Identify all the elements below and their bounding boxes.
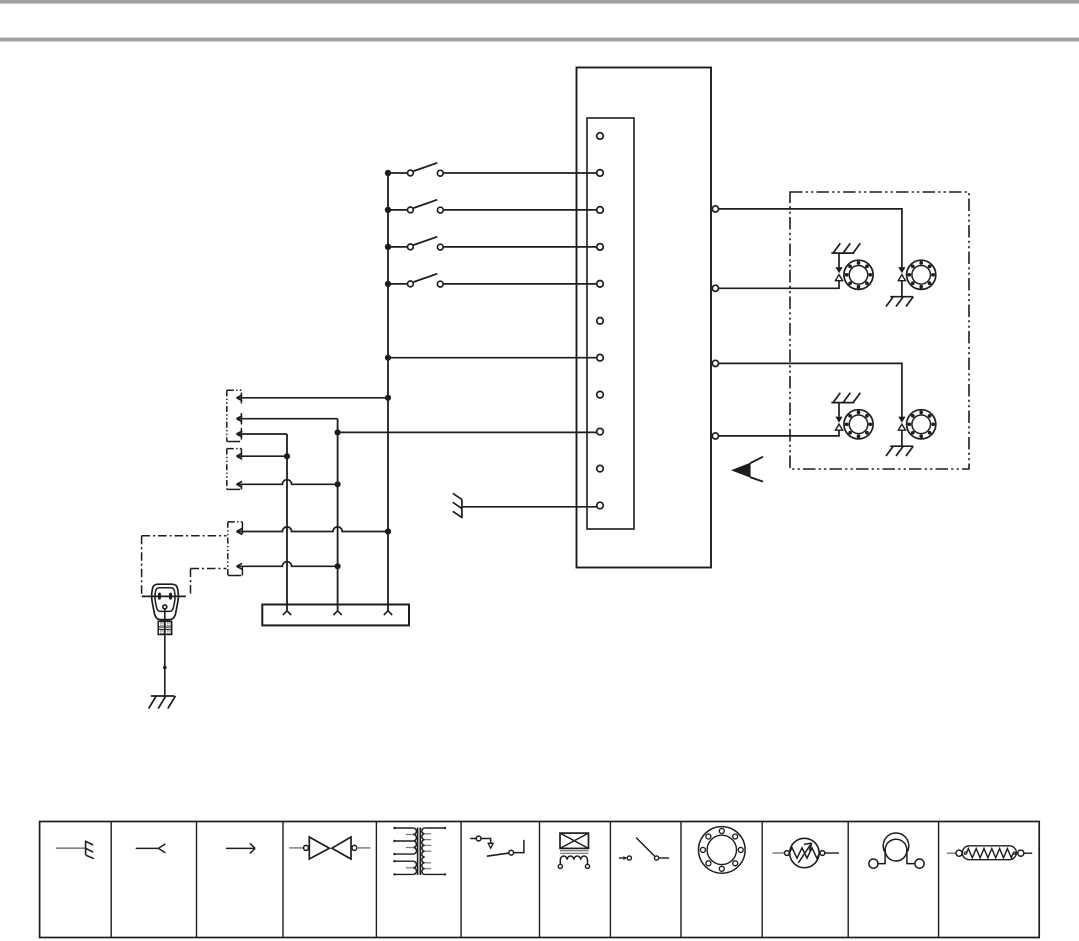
legend symbol: body ground bbox=[56, 841, 94, 859]
wire bus to unit pin 7 bbox=[388, 357, 597, 359]
plug cord grip block bbox=[158, 621, 172, 634]
wire ground to connector (group 1 left) bbox=[838, 253, 840, 267]
ground G2 (plug) bbox=[149, 696, 176, 709]
legend symbol: motor ring bbox=[699, 827, 746, 874]
unit pin 11 bbox=[597, 502, 604, 509]
wire SW3 to unit pin 4 bbox=[443, 246, 596, 248]
legend symbol: variable resistor bbox=[773, 838, 840, 867]
power plug P1 bbox=[152, 584, 179, 619]
connector pair left motor M1a bbox=[835, 267, 842, 281]
junction block (bus bar) bbox=[262, 605, 409, 626]
wire unit pin to motor group 2 left bbox=[719, 430, 840, 436]
wire through plug face bbox=[142, 595, 186, 597]
wire vertical 1 bbox=[286, 434, 288, 611]
terminal arrow J1-2 bbox=[237, 416, 243, 422]
connector pair left motor M2a bbox=[835, 417, 842, 431]
control unit U1 outer box bbox=[577, 68, 712, 568]
dash-dot lead from plug to connector J3 pin1 bbox=[142, 536, 227, 597]
connector J3 (dash-dot bracket) bbox=[228, 522, 243, 576]
plug ground hole bbox=[163, 605, 167, 609]
terminal arrow J1-3 bbox=[237, 431, 243, 437]
wire ground to connector (group 2 left) bbox=[838, 403, 840, 417]
connector J2 (dash-dot bracket) bbox=[227, 449, 242, 490]
unit pin 10 bbox=[597, 465, 604, 472]
ground G1 (unit pin 11) bbox=[453, 493, 462, 518]
wire vertical 2 bbox=[337, 419, 339, 611]
wire J1-3 to vertical 1 bbox=[237, 433, 288, 435]
unit right pin A bbox=[712, 206, 718, 212]
legend symbol: switch bbox=[619, 838, 669, 861]
wire J1-2 with corner bbox=[237, 418, 338, 420]
unit pin 3 bbox=[597, 207, 604, 214]
ground G-M2b (below motor) bbox=[886, 446, 913, 456]
switch SW1 bbox=[385, 163, 443, 176]
wire J2-1 to vertical 1 bbox=[237, 455, 288, 457]
unit pin 5 bbox=[597, 281, 604, 288]
motor ring M1b bbox=[907, 260, 936, 289]
unit pin 6 bbox=[597, 318, 604, 325]
wire to unit pin 9 bbox=[338, 431, 597, 433]
legend symbol: relay contact bbox=[470, 836, 524, 856]
bus bar terminal at x=337.6 bbox=[333, 603, 341, 615]
terminal arrow J2-1 bbox=[237, 453, 243, 459]
junction vertical2/J3-2 bbox=[335, 563, 341, 569]
wire unit pin to motor group 1 left bbox=[719, 281, 840, 289]
switch SW3 bbox=[385, 237, 443, 250]
second header rule bbox=[0, 38, 1079, 42]
wire SW1 to unit pin 2 bbox=[443, 172, 596, 174]
splice dot on ground wire bbox=[163, 666, 167, 670]
unit right pin D bbox=[712, 433, 718, 439]
bus bar terminal at x=388.0 bbox=[384, 603, 392, 615]
wire unit pin to motor group 1 right bbox=[719, 209, 902, 267]
legend symbol: flow arrow bbox=[226, 843, 255, 853]
wire main bus vertical bbox=[387, 173, 389, 611]
plug prong slots bbox=[158, 593, 161, 600]
junction vertical1/J2-1 bbox=[284, 453, 290, 459]
unit right pin C bbox=[712, 360, 718, 366]
rear unit enclosure (dash-dot box) bbox=[790, 192, 969, 469]
legend symbol: heater element bbox=[947, 846, 1032, 860]
unit pin 4 bbox=[597, 244, 604, 251]
legend symbol: horn bbox=[869, 833, 924, 868]
wire connector to ground (group 2 right) bbox=[901, 430, 903, 446]
legend symbol: female terminal bbox=[136, 844, 166, 853]
terminal arrow J3-2 bbox=[237, 563, 243, 569]
unit pin 8 bbox=[597, 391, 604, 398]
ground G-M2a (above motor) bbox=[831, 393, 860, 403]
unit pin 9 bbox=[597, 428, 604, 435]
motor ring M2a bbox=[844, 410, 873, 439]
legend symbol: connector pair bbox=[289, 837, 370, 859]
wire SW2 to unit pin 3 bbox=[443, 209, 596, 211]
wire J1-1 to bus bbox=[237, 397, 389, 399]
view direction arrow bbox=[731, 457, 763, 482]
junction bus/J3-1 bbox=[385, 528, 391, 534]
junction on bus bbox=[385, 355, 391, 361]
junction vertical2/J2-2 bbox=[335, 481, 341, 487]
connector pair right motor M2b bbox=[898, 417, 905, 431]
switch SW2 bbox=[385, 200, 443, 213]
junction on vertical wire 2 bbox=[335, 429, 341, 435]
terminal arrow J1-1 bbox=[237, 395, 243, 401]
terminal arrow J2-2 bbox=[237, 481, 243, 487]
unit pin 7 bbox=[597, 354, 604, 361]
unit right pin B bbox=[712, 285, 718, 291]
motor ring M1a bbox=[844, 260, 873, 289]
terminal arrow J3-1 bbox=[237, 529, 243, 535]
wire SW4 to unit pin 5 bbox=[443, 283, 596, 285]
switch SW4 bbox=[385, 274, 443, 287]
dash-dot lead from plug to connector J3 pin2 bbox=[191, 569, 227, 596]
unit pin 1 bbox=[597, 133, 604, 140]
wire plug to ground bbox=[164, 609, 166, 696]
unit pin 2 bbox=[597, 170, 604, 177]
ground G-M1a (above motor) bbox=[831, 243, 860, 253]
ground G-M1b (below motor) bbox=[886, 297, 913, 307]
connector pair right motor M1b bbox=[898, 267, 905, 281]
control unit U1 connector inner box bbox=[587, 118, 634, 529]
wire connector to ground (group 1 right) bbox=[901, 281, 903, 297]
legend symbol: solenoid valve bbox=[558, 833, 589, 868]
connector J1 (dash-dot bracket) bbox=[227, 390, 242, 441]
junction bus/J1-1 bbox=[385, 395, 391, 401]
legend table frame bbox=[40, 822, 1040, 938]
motor ring M2b bbox=[907, 410, 936, 439]
wire ground to unit pin 11 bbox=[462, 506, 597, 508]
legend symbol: transformer T1 bbox=[393, 827, 446, 876]
top header bar bbox=[0, 0, 1079, 4]
wire unit pin to motor group 2 right bbox=[719, 363, 902, 416]
bus bar terminal at x=287.0 bbox=[283, 603, 291, 615]
